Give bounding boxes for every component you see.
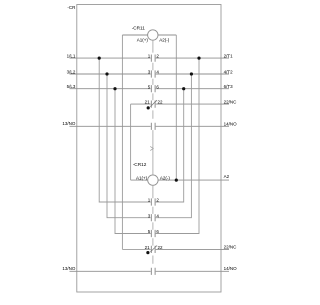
wire coil CR11 A2 lead <box>158 34 176 36</box>
wire row 1L1-2T1 left <box>70 57 151 59</box>
wire A1 bracket vertical to contact 21 (bottom block) <box>121 35 123 249</box>
wire row 13NO-14NO bottom right <box>156 270 229 272</box>
svg-text:2/T1: 2/T1 <box>224 53 234 58</box>
svg-text:22/NC: 22/NC <box>224 99 238 104</box>
coil U2 -CR12 circle <box>148 175 158 185</box>
relay -CR enclosure box <box>77 5 221 293</box>
contact 1-2 CR11 ticks <box>151 55 155 62</box>
svg-text:A2(-): A2(-) <box>159 37 170 42</box>
contact 21-22 CR11 ticks <box>151 101 155 108</box>
junction node 6T3 drop <box>182 87 185 90</box>
wire row 1L1-2T1 right <box>156 57 229 59</box>
NC slash contact 21-22 CR12 <box>150 246 157 253</box>
contact 5-6 CR12 ticks <box>151 230 155 237</box>
svg-text:A1(+): A1(+) <box>137 37 149 42</box>
contact 5-6 CR11 ticks <box>151 85 155 92</box>
junction node 2T1 drop <box>197 57 200 60</box>
junction node 4T2 drop <box>190 72 193 75</box>
wire drop 5L3 to bottom contact 5 <box>115 89 151 234</box>
svg-text:21: 21 <box>145 245 151 250</box>
junction node 1L1 drop <box>98 57 101 60</box>
wire drop 3L2 to bottom contact 3 <box>107 74 151 218</box>
wire row 21-22 bottom right to 22/NC <box>156 248 229 250</box>
svg-text:21: 21 <box>145 100 151 105</box>
svg-text:3/L2: 3/L2 <box>67 69 76 74</box>
wire row 3L2-4T2 right <box>156 73 229 75</box>
contact 13-14 CR11 ticks <box>151 123 155 130</box>
contact 3-4 CR12 ticks <box>151 214 155 221</box>
wire coil CR11 A1 lead <box>122 34 147 36</box>
svg-text:4/T2: 4/T2 <box>224 69 234 74</box>
svg-text:-CR: -CR <box>67 5 76 10</box>
wire vertical from 21 corner down to CR12 A1 <box>130 104 132 180</box>
svg-text:A2(-): A2(-) <box>160 176 171 181</box>
contact 13-14 CR12 ticks <box>151 268 155 275</box>
mechanical linkage dashed line <box>152 40 154 264</box>
contact ticks <box>151 55 155 275</box>
wire drop 6T3 to bottom contact 2 <box>156 89 184 202</box>
svg-text:22: 22 <box>158 245 164 250</box>
linkage chevron <box>150 146 153 150</box>
svg-text:1/L1: 1/L1 <box>67 53 76 58</box>
junction node 3L2 drop <box>105 72 108 75</box>
wire coil CR12 A1 lead <box>131 179 148 181</box>
svg-text:22/NC: 22/NC <box>224 245 238 250</box>
wire drop 1L1 to bottom contact 1 <box>99 58 151 202</box>
svg-text:6/T3: 6/T3 <box>224 84 234 89</box>
svg-text:22: 22 <box>158 100 164 105</box>
svg-text:13/NO: 13/NO <box>62 121 76 126</box>
svg-text:13/NO: 13/NO <box>62 266 76 271</box>
wire row 3L2-4T2 left <box>70 73 151 75</box>
wire row 5L3-6T3 right <box>156 88 229 90</box>
junction node A2 <box>175 179 178 182</box>
svg-text:-CR11: -CR11 <box>132 26 146 31</box>
svg-text:14/NO: 14/NO <box>224 122 238 127</box>
wire row 21-22 top left <box>131 103 151 105</box>
svg-text:5/L3: 5/L3 <box>67 84 76 89</box>
wire row 5L3-6T3 left <box>70 88 151 90</box>
wire drop 2T1 to bottom contact 6 <box>156 58 199 233</box>
coil U1 -CR11 circle <box>148 30 158 40</box>
contact 21-22 CR12 ticks <box>151 246 155 253</box>
wire row 13NO-14NO top right <box>156 125 229 127</box>
wire row 13NO-14NO bottom left <box>70 270 151 272</box>
svg-text:14/NO: 14/NO <box>224 266 238 271</box>
contact 3-4 CR11 ticks <box>151 70 155 77</box>
junction node contact 21 CR11 <box>147 106 150 109</box>
junction node 5L3 drop <box>113 87 116 90</box>
wire coil CR12 A2 lead to terminal A2 <box>158 179 229 181</box>
wire A2 bracket vertical to node A2 <box>175 35 177 180</box>
wire drop 4T2 to bottom contact 4 <box>156 74 192 218</box>
NC slash contact 21-22 CR11 <box>150 100 157 107</box>
contact 1-2 CR12 ticks <box>151 198 155 205</box>
svg-text:A2: A2 <box>224 174 230 179</box>
svg-text:A1(+): A1(+) <box>136 176 148 181</box>
wire row 13NO-14NO top left <box>70 125 151 127</box>
junction node contact 21 CR12 <box>146 251 149 254</box>
svg-text:-CR12: -CR12 <box>133 162 147 167</box>
wire row 21-22 top right to 22/NC <box>156 103 229 105</box>
wire row 21-22 bottom left (from A1 bracket) <box>122 248 150 250</box>
